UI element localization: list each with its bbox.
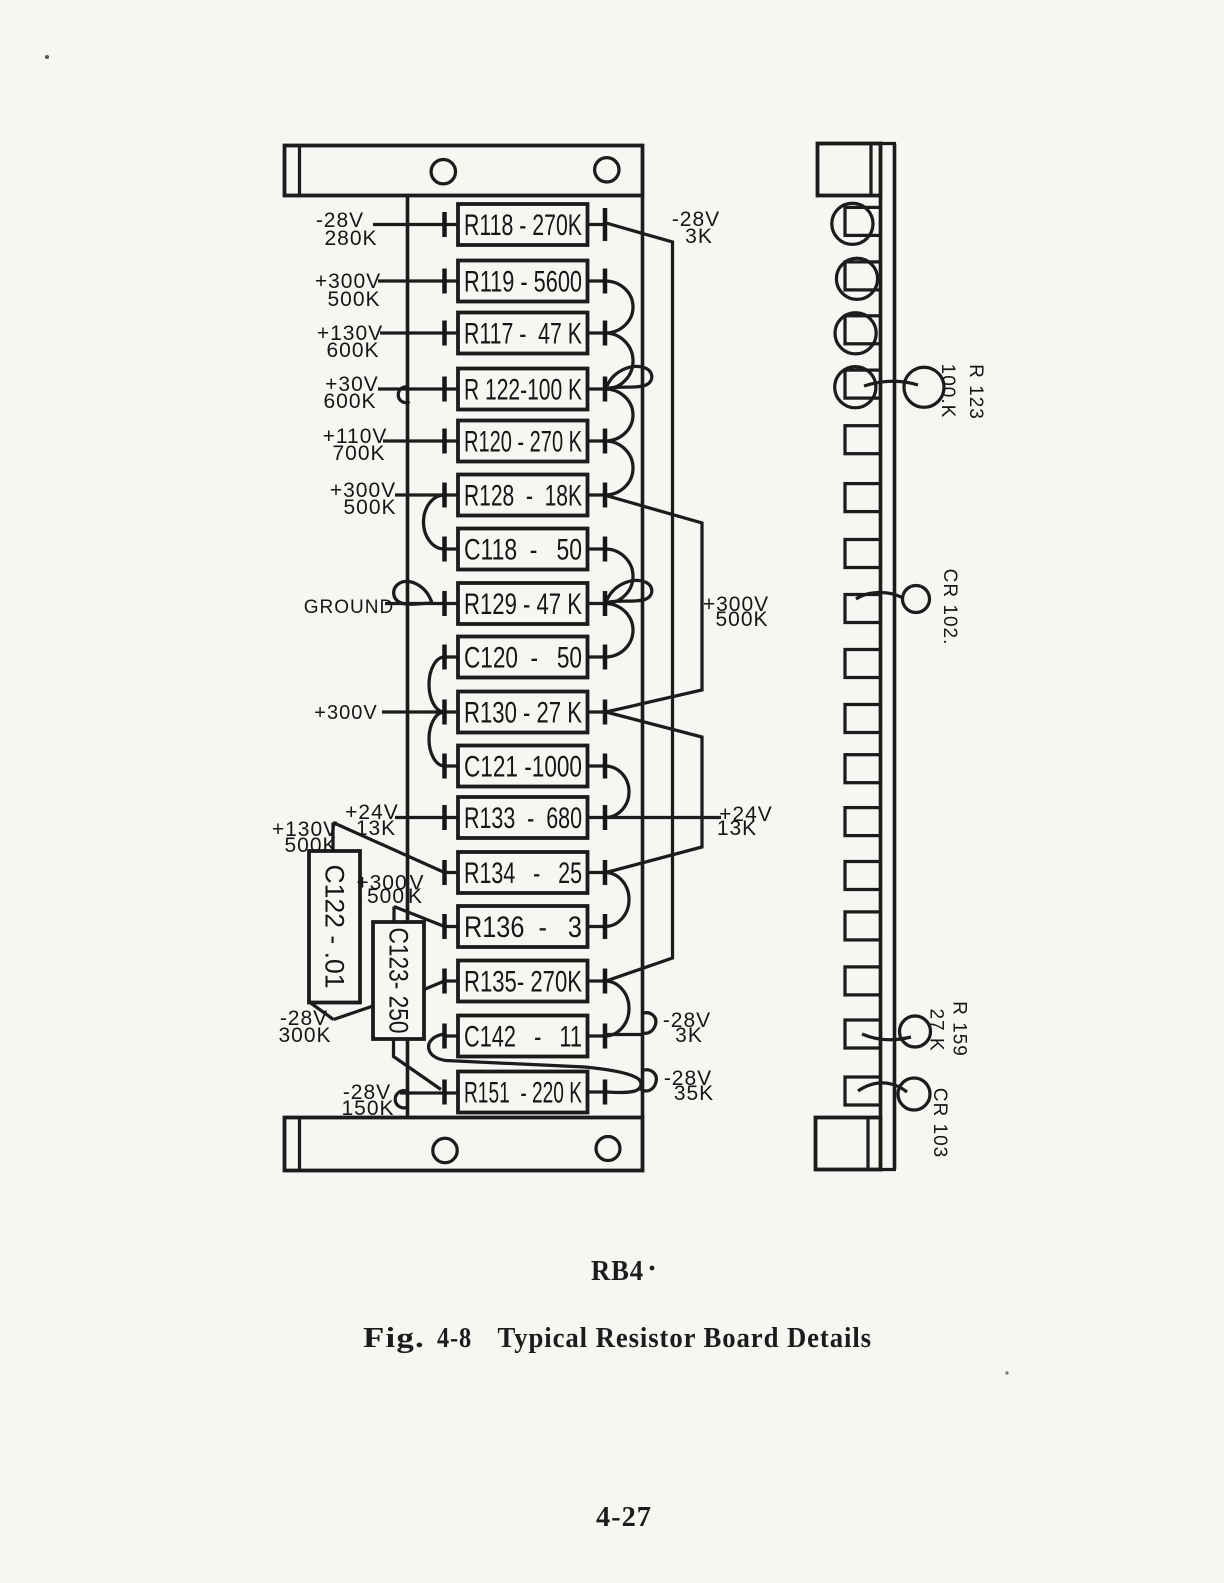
- wire: jumper arc R135 right terminal to C142 right terminal: [605, 981, 629, 1036]
- wire: left stub of C142: [445, 1034, 459, 1037]
- wire loop at R129 right terminal (board edge wrap): [606, 580, 652, 603]
- svg-text:RB4: RB4: [591, 1255, 644, 1287]
- side view top mounting bracket: [818, 144, 897, 196]
- wire: left stub of C118: [445, 547, 459, 550]
- terminal tick C118 pin 1 (left): [442, 537, 447, 562]
- net label +300 V 500 K (C123/R136): [356, 872, 424, 909]
- capacitor C122 (C122 - .01): [309, 851, 360, 1003]
- terminal tick R128 pin 1 (left): [442, 483, 447, 508]
- resistor R130 (R130 - 27 K): [458, 692, 588, 733]
- svg-text:R151 - 220 K: R151 - 220 K: [464, 1077, 582, 1110]
- svg-text:R117 - 47 K: R117 - 47 K: [464, 318, 582, 351]
- net label +30V 600K (R122 left): [323, 373, 378, 413]
- net label +300V 500K (R128 left): [330, 479, 397, 519]
- svg-text:700K: 700K: [332, 442, 385, 465]
- side view component lug 15: [845, 967, 881, 995]
- svg-text:C120 - 50: C120 - 50: [464, 642, 582, 675]
- svg-text:500K: 500K: [343, 496, 396, 519]
- side view resistor body circle 4: [835, 367, 876, 408]
- wire: -28V 3K net from R118 right terminal down to R135 right terminal: [606, 223, 673, 981]
- label R159 27K: [926, 1001, 970, 1057]
- terminal tick R136 pin 1 (left): [442, 914, 447, 939]
- terminal tick R122 pin 2 (right): [603, 377, 608, 402]
- side view component lug 1: [845, 207, 881, 235]
- side view component lug 8: [845, 595, 881, 623]
- side view component lug 14: [845, 912, 881, 940]
- wire: +130V 500K diagonal to R134 left terminal: [333, 823, 445, 873]
- terminal tick C142 pin 2 (right): [603, 1024, 608, 1049]
- terminal tick R133 pin 1 (left): [442, 805, 447, 830]
- wire: jumper arc R130 left terminal to C121 left terminal: [429, 712, 445, 766]
- capacitor C120 (C120 - 50): [458, 637, 588, 678]
- svg-text:300K: 300K: [278, 1024, 331, 1047]
- wire: +300V 500K diagonal to R136 left terminal: [394, 907, 445, 927]
- svg-text:C142 - 11: C142 - 11: [464, 1021, 582, 1054]
- svg-text:100.K: 100.K: [937, 364, 958, 419]
- bottom bracket mounting hole left: [433, 1138, 457, 1162]
- wire: C142 left terminal hook to R151 right terminal: [429, 1034, 641, 1093]
- terminal tick R122 pin 1 (left): [442, 377, 447, 402]
- svg-text:13K: 13K: [356, 817, 396, 840]
- side view board right edge line: [893, 144, 897, 1170]
- wire: +300V 500K stub to C123 top: [392, 907, 395, 923]
- wire: left lead to R120: [383, 439, 458, 442]
- resistor R134 (R134 - 25): [458, 852, 588, 893]
- net label -28V 150K (R151 left): [341, 1081, 394, 1120]
- svg-text:600K: 600K: [326, 339, 379, 362]
- net label -28V 280K (R118 left): [316, 209, 378, 250]
- wire: jumper arc C121 right terminal to R133 right terminal: [605, 766, 629, 818]
- svg-text:R134 - 25: R134 - 25: [464, 857, 582, 890]
- terminal tick R130 pin 2 (right): [603, 700, 608, 725]
- svg-text:Fig.4-8Typical Resistor Board: Fig.4-8Typical Resistor Board Details: [363, 1322, 872, 1354]
- label CR 103: [929, 1088, 950, 1158]
- resistor R118 (R118 - 270K): [458, 204, 588, 245]
- net label +300V (R130 left): [314, 702, 377, 724]
- side view component lug 5: [845, 426, 881, 454]
- svg-text:3K: 3K: [675, 1024, 703, 1047]
- board left edge line (front view): [406, 196, 410, 1118]
- wire: jumper arc R129 right terminal to C120 right terminal: [605, 604, 633, 658]
- figure caption: [363, 1322, 872, 1354]
- resistor R151 (R151 - 220 K): [458, 1072, 588, 1113]
- wire: left stub of R136: [445, 925, 459, 928]
- svg-text:C122 - .01: C122 - .01: [320, 865, 350, 989]
- side view component lug 2: [845, 262, 881, 290]
- terminal tick R136 pin 2 (right): [603, 914, 608, 939]
- bottom bracket mounting hole right: [596, 1137, 620, 1161]
- svg-text:R135- 270K: R135- 270K: [464, 966, 582, 999]
- side view component lug 17: [845, 1077, 881, 1105]
- resistor R135 (R135- 270K): [458, 961, 588, 1002]
- wire loop at R122 right terminal (board edge wrap): [606, 366, 652, 389]
- wire: right stub of C120: [588, 655, 606, 658]
- terminal tick C142 pin 1 (left): [442, 1024, 447, 1049]
- wire: right stub of R118: [588, 223, 606, 226]
- svg-text:R133 - 680: R133 - 680: [464, 802, 582, 835]
- terminal tick C121 pin 1 (left): [442, 754, 447, 779]
- svg-text:150K: 150K: [341, 1097, 394, 1120]
- wire: jumper arc C120 left terminal to R130 left terminal: [429, 657, 445, 712]
- top mounting bracket (front view): [285, 146, 643, 196]
- terminal tick R129 pin 2 (right): [603, 591, 608, 616]
- svg-text:4-27: 4-27: [596, 1501, 652, 1533]
- wire loop at -28V 150K lead on board left edge: [395, 1091, 408, 1108]
- top bracket mounting hole right: [595, 158, 619, 182]
- top bracket mounting hole left: [431, 160, 455, 184]
- terminal tick R119 pin 2 (right): [603, 269, 608, 294]
- terminal tick C118 pin 2 (right): [603, 537, 608, 562]
- side view component lug 13: [845, 862, 881, 890]
- svg-text:500K: 500K: [284, 834, 337, 857]
- board right edge line (front view): [641, 196, 645, 1118]
- wire: +130V 500K stub to C122 top: [331, 823, 334, 852]
- wire: right stub of R133: [588, 816, 606, 819]
- svg-text:CR 102.: CR 102.: [939, 569, 960, 646]
- label R123 100.K: [937, 364, 986, 420]
- wire: right stub of R119: [588, 279, 606, 282]
- terminal tick R117 pin 1 (left): [442, 321, 447, 346]
- svg-text:R120 - 270 K: R120 - 270 K: [464, 426, 582, 459]
- terminal tick R118 pin 1 (left): [442, 212, 447, 237]
- board designation RB4: [591, 1255, 654, 1287]
- net label GROUND (R129 left): [304, 597, 394, 618]
- wire loop at GROUND lead on board left edge: [394, 581, 432, 604]
- wire: left stub of R135: [445, 979, 459, 982]
- svg-text:K: K: [408, 885, 423, 908]
- wire: C123 right side to R135 left terminal: [424, 981, 445, 990]
- wire: jumper arc R119 right terminal to R117 right terminal: [605, 281, 633, 333]
- wire loop at +30V 600K lead on board left edge: [398, 387, 409, 403]
- terminal tick C120 pin 2 (right): [603, 645, 608, 670]
- terminal tick R135 pin 2 (right): [603, 969, 608, 994]
- wire: left lead to R129: [385, 602, 458, 605]
- side view resistor body circle 1: [832, 203, 873, 244]
- wire: left lead to R119: [378, 279, 458, 282]
- wire loop at R151 right terminal (-28V 35K): [641, 1070, 657, 1091]
- terminal tick C120 pin 1 (left): [442, 645, 447, 670]
- wire: right stub of R135: [588, 979, 606, 982]
- svg-text:C118 - 50: C118 - 50: [464, 534, 582, 567]
- resistor R120 (R120 - 270 K): [458, 421, 588, 462]
- svg-text:GROUND: GROUND: [304, 597, 394, 618]
- svg-text:CR 103: CR 103: [929, 1088, 950, 1158]
- wire: jumper arc R120 right terminal to R128 right terminal: [605, 441, 633, 495]
- svg-text:500: 500: [367, 885, 405, 908]
- wire: left lead to R122: [378, 387, 458, 390]
- svg-text:R 123: R 123: [965, 364, 986, 420]
- svg-text:27 K: 27 K: [926, 1008, 947, 1051]
- net label -28V 3K (C142 right): [663, 1009, 711, 1047]
- wire loop at C142 right lead (-28V 3K): [606, 1013, 656, 1035]
- svg-text:R128 - 18K: R128 - 18K: [464, 480, 582, 513]
- svg-text:C121 -1000: C121 -1000: [464, 751, 582, 784]
- resistor R122 (R 122-100 K): [458, 369, 588, 410]
- net label +130V 500K (C122/R134): [272, 818, 338, 857]
- net label +110V 700K (R120 left): [323, 425, 388, 465]
- wire: jumper arc R122 right terminal to R120 right terminal: [605, 389, 633, 441]
- svg-text:R118 - 270K: R118 - 270K: [464, 209, 582, 242]
- resistor R128 (R128 - 18K): [458, 475, 588, 516]
- wire: right stub of R120: [588, 439, 606, 442]
- terminal tick R151 pin 1 (left): [442, 1080, 447, 1105]
- resistor R129 (R129 - 47 K): [458, 583, 588, 624]
- wire: left stub of C121: [445, 764, 459, 767]
- side view component lug 16: [845, 1020, 881, 1048]
- resistor R119 (R119 - 5600): [458, 261, 588, 302]
- side view component lug 4: [845, 370, 881, 398]
- terminal tick R135 pin 1 (left): [442, 969, 447, 994]
- callout leader R159: [862, 1034, 911, 1040]
- wire: C122 bottom to -28V 300K vertex: [310, 1003, 334, 1020]
- callout leader CR103: [858, 1083, 907, 1092]
- callout circle R159: [900, 1016, 931, 1047]
- svg-text:C123- 250: C123- 250: [384, 928, 414, 1034]
- wire: right stub of C118: [588, 547, 606, 550]
- side view component lug 10: [845, 705, 881, 733]
- terminal tick R130 pin 1 (left): [442, 700, 447, 725]
- svg-text:R129 - 47 K: R129 - 47 K: [464, 588, 582, 621]
- capacitor C118 (C118 - 50): [458, 529, 588, 570]
- terminal tick R134 pin 1 (left): [442, 860, 447, 885]
- scan speck: [45, 55, 49, 59]
- wire: right stub of R130: [588, 710, 606, 713]
- callout leader CR102: [856, 592, 903, 599]
- terminal tick R134 pin 2 (right): [603, 860, 608, 885]
- side view component lug 7: [845, 540, 881, 568]
- svg-text:500K: 500K: [327, 288, 380, 311]
- net label -28V 35K (R151 right): [664, 1067, 714, 1105]
- svg-text:R 122-100 K: R 122-100 K: [464, 374, 582, 407]
- net label +24V 13K (R133 right): [717, 803, 773, 840]
- terminal tick R129 pin 1 (left): [442, 591, 447, 616]
- svg-text:R130 - 27 K: R130 - 27 K: [464, 697, 582, 730]
- svg-text:R119 - 5600: R119 - 5600: [464, 266, 582, 299]
- terminal tick R117 pin 2 (right): [603, 321, 608, 346]
- wire: left stub of R134: [445, 871, 459, 874]
- net label +300V 500K (right bus): [703, 593, 769, 631]
- svg-text:280K: 280K: [324, 227, 377, 250]
- wire: +24V 13K lead from R133 right terminal: [606, 816, 721, 819]
- side view component lug 12: [845, 808, 881, 836]
- terminal tick R151 pin 2 (right): [603, 1080, 608, 1105]
- side view resistor body circle 2: [836, 258, 877, 299]
- label CR 102: [939, 569, 960, 646]
- wire: left lead to R133: [395, 816, 458, 819]
- callout leader R123: [864, 381, 918, 386]
- svg-text:13K: 13K: [717, 817, 757, 840]
- wire: jumper arc C118 right terminal to R129 right terminal: [605, 549, 633, 604]
- wire: +300V 500K net linking R128, R130, R134 right terminals: [606, 496, 702, 873]
- wire: C123 bottom to R151 left terminal: [394, 1039, 442, 1090]
- net label +24V 13K (R133 left): [345, 801, 399, 840]
- bottom mounting bracket (front view): [285, 1118, 643, 1171]
- callout circle CR102: [903, 586, 930, 613]
- svg-text:35K: 35K: [674, 1082, 714, 1105]
- wire: right stub of R117: [588, 331, 606, 334]
- net label +300V 500K (R119 left): [315, 270, 381, 311]
- terminal tick R118 pin 2 (right): [603, 208, 608, 241]
- callout circle CR103: [898, 1078, 930, 1110]
- wire: jumper arc R117 right terminal to R122 right terminal: [605, 333, 633, 389]
- wire: right stub of R134: [588, 871, 606, 874]
- svg-text:3K: 3K: [685, 225, 713, 248]
- side view board left edge line: [879, 196, 883, 1117]
- capacitor C121 (C121 -1000): [458, 746, 588, 787]
- capacitor C123 (C123 - 250): [373, 922, 424, 1039]
- resistor R117 (R117 - 47 K): [458, 313, 588, 354]
- wire: right stub of R151: [588, 1090, 606, 1093]
- wire: right stub of R129: [588, 602, 606, 605]
- terminal tick R128 pin 2 (right): [603, 483, 608, 508]
- terminal tick R133 pin 2 (right): [603, 805, 608, 830]
- net label +130V 600K (R117 left): [317, 322, 383, 362]
- terminal tick R120 pin 1 (left): [442, 429, 447, 454]
- wire: left lead to R118: [373, 223, 458, 226]
- svg-text:600K: 600K: [323, 390, 376, 413]
- wire: left lead to R128: [395, 493, 458, 496]
- svg-text:500K: 500K: [715, 608, 768, 631]
- wire: left stub of C120: [445, 655, 459, 658]
- net label -28V 3K (R118 right): [672, 208, 720, 248]
- svg-text:R 159: R 159: [949, 1001, 970, 1057]
- wire: left lead to R130: [382, 710, 458, 713]
- wire: jumper arc R128 left terminal to C118 left terminal: [424, 495, 445, 549]
- side view component lug 9: [845, 650, 881, 678]
- side view component lug 6: [845, 484, 881, 512]
- net label -28V 300K (C122 bottom): [278, 1007, 331, 1047]
- wire: jumper arc R134 right terminal to R136 right terminal: [605, 873, 629, 927]
- resistor R133 (R133 - 680): [458, 797, 588, 838]
- wire: right stub of C121: [588, 764, 606, 767]
- resistor R136 (R136 - 3): [458, 906, 588, 947]
- capacitor C142 (C142 - 11): [458, 1016, 588, 1057]
- scan speck: [1005, 1371, 1008, 1374]
- wire: right stub of R136: [588, 925, 606, 928]
- wire: -28V 150K lead to R151 left terminal: [400, 1091, 458, 1094]
- wire: -28V 300K vertex to C123 left side: [334, 1006, 374, 1020]
- callout circle R123: [904, 367, 944, 407]
- side view resistor body circle 3: [835, 313, 876, 354]
- wire: right stub of R122: [588, 387, 606, 390]
- side view component lug 3: [845, 316, 881, 344]
- terminal tick R120 pin 2 (right): [603, 429, 608, 454]
- side view bottom mounting bracket: [816, 1118, 897, 1170]
- wire: right stub of R128: [588, 493, 606, 496]
- svg-text:+300V: +300V: [314, 702, 377, 724]
- side view component lug 11: [845, 755, 881, 783]
- svg-text:R136 - 3: R136 - 3: [464, 911, 582, 944]
- terminal tick R119 pin 1 (left): [442, 269, 447, 294]
- terminal tick C121 pin 2 (right): [603, 754, 608, 779]
- wire: right stub of C142: [588, 1034, 606, 1037]
- wire: left lead to R117: [380, 331, 458, 334]
